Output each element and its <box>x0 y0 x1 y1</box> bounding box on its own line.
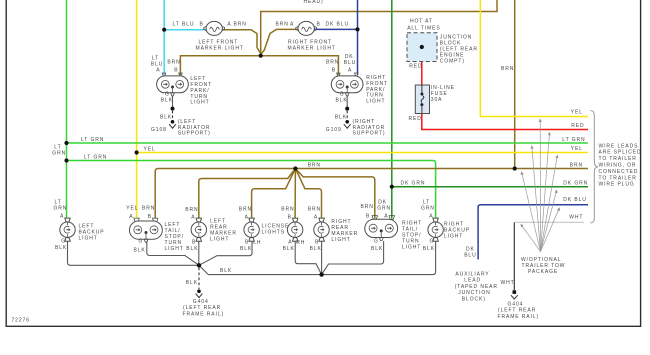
svg-text:G404: G404 <box>508 301 524 307</box>
svg-text:BRN: BRN <box>326 59 339 65</box>
svg-text:B: B <box>288 215 292 221</box>
svg-text:GRN: GRN <box>52 151 66 157</box>
svg-text:RED: RED <box>409 116 422 122</box>
svg-text:B: B <box>317 22 321 28</box>
svg-text:BRN: BRN <box>167 59 180 65</box>
svg-text:LT GRN: LT GRN <box>84 155 107 161</box>
wire DK BLU vertical (to right park/turn A) <box>357 0 359 75</box>
lamp right front marker light <box>276 21 349 51</box>
svg-text:LT GRN: LT GRN <box>562 137 585 143</box>
svg-text:A: A <box>191 215 195 221</box>
wire BLK left backup G to bus <box>68 241 200 265</box>
wire LT GRN vertical left (to left backup light) <box>66 0 68 219</box>
label LT GRN lead 2 <box>84 155 107 161</box>
node BLK left ground junction <box>197 263 201 267</box>
wire BRN branch to license RH <box>294 169 296 219</box>
wire BLK right park/turn G <box>335 92 349 121</box>
svg-text:LIGHT: LIGHT <box>366 99 385 105</box>
svg-text:BLK: BLK <box>161 98 173 104</box>
label wire leads note <box>599 143 642 187</box>
label DK GRN lead left <box>401 180 426 186</box>
svg-text:DK GRN: DK GRN <box>563 180 588 186</box>
svg-text:A: A <box>129 214 133 220</box>
svg-text:BLK: BLK <box>283 246 295 252</box>
ground G108 <box>151 119 211 137</box>
svg-text:ARE SPLICED: ARE SPLICED <box>599 150 642 156</box>
wire BRN branch to right rear marker <box>295 169 321 219</box>
wire YEL vertical right + trailer YEL lead <box>480 0 588 117</box>
svg-text:YEL: YEL <box>571 146 583 152</box>
svg-text:A: A <box>156 67 160 73</box>
svg-text:BLK: BLK <box>186 280 198 286</box>
label LT GRN lead 1 <box>81 137 104 143</box>
svg-text:WHT: WHT <box>501 280 515 286</box>
lamp left front marker light <box>173 21 247 51</box>
svg-text:A: A <box>60 214 64 220</box>
svg-text:A: A <box>245 215 249 221</box>
wire WHT vertical to G404 <box>513 222 515 290</box>
wire BLK dashed to G404 <box>198 268 200 290</box>
svg-text:WIRE LEADS: WIRE LEADS <box>599 143 639 149</box>
svg-text:BLK: BLK <box>310 246 322 252</box>
svg-text:G109: G109 <box>326 127 342 133</box>
svg-text:BRN: BRN <box>570 162 583 168</box>
fuse in-line 30A <box>409 85 455 122</box>
labels trailer lead right ends <box>562 110 588 221</box>
svg-text:BRN: BRN <box>234 22 247 28</box>
svg-text:A: A <box>348 67 352 73</box>
svg-text:BRN: BRN <box>239 207 252 213</box>
wire BLK bus right node to right backup G <box>322 241 436 275</box>
svg-text:B: B <box>315 240 319 246</box>
connector left tail/stop/turn light <box>126 205 184 253</box>
svg-text:GRN: GRN <box>421 206 435 212</box>
label BLK bus <box>220 268 232 274</box>
wire BRN left marker to junction A <box>223 30 261 54</box>
node DK BLU <box>355 27 359 31</box>
svg-text:FRAME RAIL): FRAME RAIL) <box>183 311 225 317</box>
svg-text:TO TRAILER: TO TRAILER <box>599 175 637 181</box>
svg-text:TO TRAILER: TO TRAILER <box>599 156 637 162</box>
node YEL <box>135 150 139 154</box>
label auxiliary lead <box>455 272 498 303</box>
svg-text:LT GRN: LT GRN <box>81 137 104 143</box>
wire RED from fuse to trailer RED lead <box>422 47 588 130</box>
svg-text:RED: RED <box>571 123 584 129</box>
svg-text:G: G <box>430 238 435 244</box>
wire LT BLU horizontal to left marker light <box>164 29 206 31</box>
svg-text:BLK: BLK <box>371 246 383 252</box>
svg-text:LIGHT: LIGHT <box>331 237 350 243</box>
svg-text:BLU: BLU <box>464 253 476 259</box>
svg-text:RED: RED <box>409 64 422 70</box>
wire BLK license RH to right node <box>295 241 321 275</box>
svg-text:A: A <box>314 215 318 221</box>
lamp license lights LH <box>239 207 289 252</box>
svg-text:G: G <box>61 239 66 245</box>
wire BRN branch to right tail B <box>295 169 374 219</box>
svg-text:A: A <box>384 214 388 220</box>
svg-text:B: B <box>200 22 204 28</box>
wire BRN branch to left rear marker <box>199 169 296 219</box>
svg-text:BRN: BRN <box>308 162 321 168</box>
svg-text:HEAD): HEAD) <box>304 0 324 5</box>
wire WHT trailer lead <box>515 221 584 223</box>
wire BRN branch to license LH <box>252 169 296 219</box>
svg-text:LIGHT: LIGHT <box>444 233 463 239</box>
svg-text:LIGHT: LIGHT <box>402 245 421 251</box>
wire LT GRN to right backup light <box>67 161 436 219</box>
svg-text:PACKAGE: PACKAGE <box>528 269 558 275</box>
brace bracket trailer <box>591 111 599 224</box>
svg-text:LEAD: LEAD <box>464 278 481 284</box>
ground G109 <box>326 119 386 137</box>
svg-text:GRN: GRN <box>54 205 68 211</box>
label WHT lower <box>501 280 515 286</box>
svg-text:JUNCTION: JUNCTION <box>458 290 490 296</box>
svg-text:BLK: BLK <box>240 246 252 252</box>
wire BLK left park/turn G <box>160 92 175 121</box>
label DK BLU auxiliary stacked <box>464 246 476 258</box>
wire BLK license LH to node <box>199 241 252 265</box>
wire DK GRN vertical (to right tail light A) <box>391 0 393 219</box>
wire BLK left tail G to node <box>147 241 199 265</box>
svg-text:LT BLU: LT BLU <box>173 22 195 28</box>
wire BLK right rear marker B to right node <box>321 241 323 275</box>
wire LT GRN trailer lead 1 <box>67 142 589 144</box>
ground G404 right <box>498 290 540 320</box>
wire BLK left rear marker B to node <box>198 241 200 265</box>
node DK GRN <box>390 185 394 189</box>
svg-text:LIGHT: LIGHT <box>190 100 209 106</box>
svg-text:BLK: BLK <box>335 114 347 120</box>
svg-text:WIRING, OR: WIRING, OR <box>599 163 637 169</box>
label W/OPTIONAL TRAILER TOW PACKAGE <box>521 257 565 275</box>
lamp left backup light <box>54 199 105 251</box>
label BLK dashed left <box>186 280 198 286</box>
wire BRN junction to right park/turn B <box>261 56 339 75</box>
label LT GRN vertical stacked <box>52 144 66 156</box>
wire BRN top bus (up to headlamp circuit) <box>261 0 497 56</box>
wire DK BLU horizontal right marker to node <box>315 28 358 30</box>
svg-text:B: B <box>245 240 249 246</box>
svg-text:BLK: BLK <box>336 98 348 104</box>
svg-text:SUPPORT): SUPPORT) <box>353 131 386 137</box>
svg-text:DK BLU: DK BLU <box>563 197 586 203</box>
wire BLK right tail G to right node <box>322 241 384 275</box>
svg-text:72276: 72276 <box>12 318 30 324</box>
node LT GRN upper <box>64 141 68 145</box>
svg-text:YEL: YEL <box>571 110 583 116</box>
svg-text:BRN: BRN <box>361 204 374 210</box>
connector right front park/turn light <box>326 54 388 105</box>
svg-text:MARKER LIGHT: MARKER LIGHT <box>288 46 336 52</box>
lamp right backup light <box>421 200 470 252</box>
lamp right rear marker light <box>308 207 358 252</box>
wire DK GRN trailer lead <box>392 186 588 188</box>
svg-text:30A: 30A <box>431 97 443 103</box>
wire YEL vertical left (to left tail light A) <box>136 0 138 219</box>
label YEL lead <box>144 146 156 152</box>
svg-text:LIGHT: LIGHT <box>210 236 229 242</box>
svg-text:BLK: BLK <box>160 114 172 120</box>
ground G404 left <box>183 289 225 317</box>
svg-text:YEL: YEL <box>126 205 138 211</box>
node BRN tree <box>293 166 297 170</box>
node LT GRN lower <box>64 158 68 162</box>
svg-text:GRN: GRN <box>377 206 391 212</box>
svg-text:FRAME RAIL): FRAME RAIL) <box>498 314 540 320</box>
wire YEL trailer lead <box>137 152 588 154</box>
svg-text:WHT: WHT <box>569 214 583 220</box>
svg-text:(LEFT REAR: (LEFT REAR <box>183 305 221 311</box>
svg-text:MARKER LIGHT: MARKER LIGHT <box>196 46 244 52</box>
lamp left rear marker light <box>185 207 237 252</box>
svg-text:WIRE PLUG: WIRE PLUG <box>599 182 635 188</box>
svg-text:B: B <box>148 214 152 220</box>
svg-text:BLK: BLK <box>423 246 435 252</box>
svg-text:SUPPORT): SUPPORT) <box>178 131 211 137</box>
svg-text:YEL: YEL <box>144 146 156 152</box>
svg-text:LH: LH <box>253 240 261 246</box>
svg-text:B: B <box>366 214 370 220</box>
svg-text:G: G <box>139 239 144 245</box>
svg-text:BRN: BRN <box>185 207 198 213</box>
svg-text:LIGHTS: LIGHTS <box>262 230 285 236</box>
svg-text:CONNECTED: CONNECTED <box>599 169 639 175</box>
connector right tail/stop/turn light <box>361 200 423 252</box>
svg-text:BRN: BRN <box>281 207 294 213</box>
svg-text:G108: G108 <box>151 127 167 133</box>
label partial top text <box>304 0 324 5</box>
svg-text:A: A <box>290 22 294 28</box>
trailer splice arrows fan <box>521 119 560 252</box>
svg-text:W/OPTIONAL: W/OPTIONAL <box>521 257 561 263</box>
lamp license lights RH <box>281 207 305 252</box>
svg-text:DK: DK <box>466 246 475 252</box>
svg-text:A: A <box>288 240 292 246</box>
svg-text:BLU: BLU <box>344 60 356 66</box>
svg-text:RH: RH <box>296 240 305 246</box>
wire DK BLU trailer lead / auxiliary <box>478 205 588 260</box>
svg-text:A: A <box>429 214 433 220</box>
svg-text:B: B <box>192 239 196 245</box>
wire BRN trailer lead <box>155 169 588 219</box>
svg-text:BLK: BLK <box>134 248 146 254</box>
svg-text:LIGHT: LIGHT <box>79 236 98 242</box>
svg-text:G: G <box>374 238 379 244</box>
connector left front park/turn light <box>151 56 212 106</box>
node BRN junction front <box>259 54 263 58</box>
svg-text:LT: LT <box>54 144 61 150</box>
label BRN lead <box>308 162 321 168</box>
svg-text:HOT AT: HOT AT <box>410 18 433 24</box>
svg-text:BRN: BRN <box>142 205 155 211</box>
svg-text:B: B <box>332 67 336 73</box>
svg-text:BRN: BRN <box>276 22 289 28</box>
svg-text:ALL TIMES: ALL TIMES <box>407 25 440 31</box>
svg-text:TRAILER TOW: TRAILER TOW <box>522 263 566 269</box>
svg-text:BRN: BRN <box>501 66 514 72</box>
svg-text:G404: G404 <box>193 299 209 305</box>
svg-text:B: B <box>174 67 178 73</box>
svg-text:LIGHT: LIGHT <box>165 246 184 252</box>
svg-text:(LEFT REAR: (LEFT REAR <box>498 308 536 314</box>
wire BRN junction to left park/turn B <box>180 56 260 75</box>
wire BRN vertical rear feed <box>514 0 516 169</box>
svg-text:BLK: BLK <box>220 268 232 274</box>
wire LT BLU vertical (to left park/turn A) <box>163 0 165 75</box>
svg-text:DK GRN: DK GRN <box>401 180 426 186</box>
junction block <box>407 18 478 69</box>
label BRN rear feed vertical <box>501 66 514 72</box>
wire BLK bus left node to right node <box>199 265 322 274</box>
node BLK right ground junction <box>319 272 323 276</box>
svg-text:BLK: BLK <box>55 245 67 251</box>
svg-text:BLOCK): BLOCK) <box>462 296 486 302</box>
svg-text:DK BLU: DK BLU <box>326 22 349 28</box>
svg-text:BRN: BRN <box>308 207 321 213</box>
node LT BLU <box>162 28 166 32</box>
svg-text:A: A <box>227 22 231 28</box>
svg-text:BLK: BLK <box>186 246 198 252</box>
node BRN rear feed <box>513 166 517 170</box>
svg-text:COMPT): COMPT) <box>440 59 465 65</box>
wire BRN right marker to junction <box>261 29 297 53</box>
